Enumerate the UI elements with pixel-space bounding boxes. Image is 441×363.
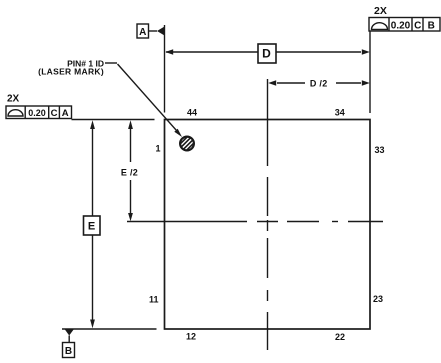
datum A flag: [137, 24, 157, 38]
feature control frame top right (2X profile 0.20 C B): [369, 18, 440, 32]
arrowhead D/2 right: [362, 80, 370, 85]
svg-text:B: B: [65, 346, 72, 357]
arrowhead D left: [165, 49, 173, 54]
svg-text:D: D: [262, 47, 271, 61]
arrowhead D right: [362, 49, 370, 54]
dimension line D: [166, 51, 258, 53]
svg-text:22: 22: [335, 332, 345, 342]
svg-text:0.20: 0.20: [28, 108, 46, 118]
leader line pin1: [105, 62, 117, 64]
extension line bottom-left horizontal (datum B side): [62, 328, 157, 330]
pin 1 laser mark circle: [175, 131, 198, 154]
dimension line E/2: [130, 128, 132, 162]
svg-text:A: A: [62, 108, 69, 119]
datum B triangle: [65, 329, 75, 336]
centerline vertical: [267, 79, 269, 166]
centerline horizontal: [127, 221, 247, 223]
extension line left (datum A side): [164, 25, 166, 113]
datum B flag: [63, 336, 75, 358]
svg-text:D /2: D /2: [310, 79, 328, 89]
arrowhead leader pin1: [174, 129, 182, 137]
svg-text:(LASER MARK): (LASER MARK): [38, 67, 104, 77]
svg-text:33: 33: [374, 145, 384, 155]
profile of surface symbol: [372, 23, 388, 30]
datum A triangle: [157, 27, 165, 36]
svg-text:34: 34: [335, 108, 345, 118]
dimension line E: [92, 128, 94, 216]
svg-text:12: 12: [186, 332, 196, 342]
feature control frame left (2X profile 0.20 C A): [6, 106, 72, 119]
svg-text:C: C: [414, 21, 421, 32]
extension line top-left horizontal: [72, 119, 155, 121]
svg-text:44: 44: [187, 108, 197, 118]
extension line right: [369, 31, 371, 113]
arrowhead E/2 top: [128, 120, 133, 129]
svg-text:23: 23: [373, 294, 383, 304]
svg-text:2X: 2X: [7, 94, 20, 105]
svg-text:B: B: [428, 21, 435, 32]
svg-text:E: E: [88, 221, 95, 233]
svg-text:E /2: E /2: [121, 168, 138, 178]
svg-text:C: C: [51, 108, 58, 119]
svg-text:A: A: [139, 27, 146, 38]
svg-text:11: 11: [149, 295, 159, 305]
svg-text:1: 1: [155, 144, 160, 154]
package outline: [165, 120, 371, 330]
dimension line D/2: [277, 82, 305, 84]
svg-text:0.20: 0.20: [391, 20, 411, 31]
dimension label D box: [258, 44, 276, 63]
profile of surface symbol: [8, 110, 23, 116]
dimension label E box: [84, 216, 101, 235]
arrowhead D/2 left: [268, 80, 276, 85]
arrowhead E bottom: [90, 320, 95, 329]
arrowhead E top: [90, 120, 95, 129]
svg-text:2X: 2X: [374, 5, 387, 17]
arrowhead E/2 bottom: [128, 213, 133, 221]
